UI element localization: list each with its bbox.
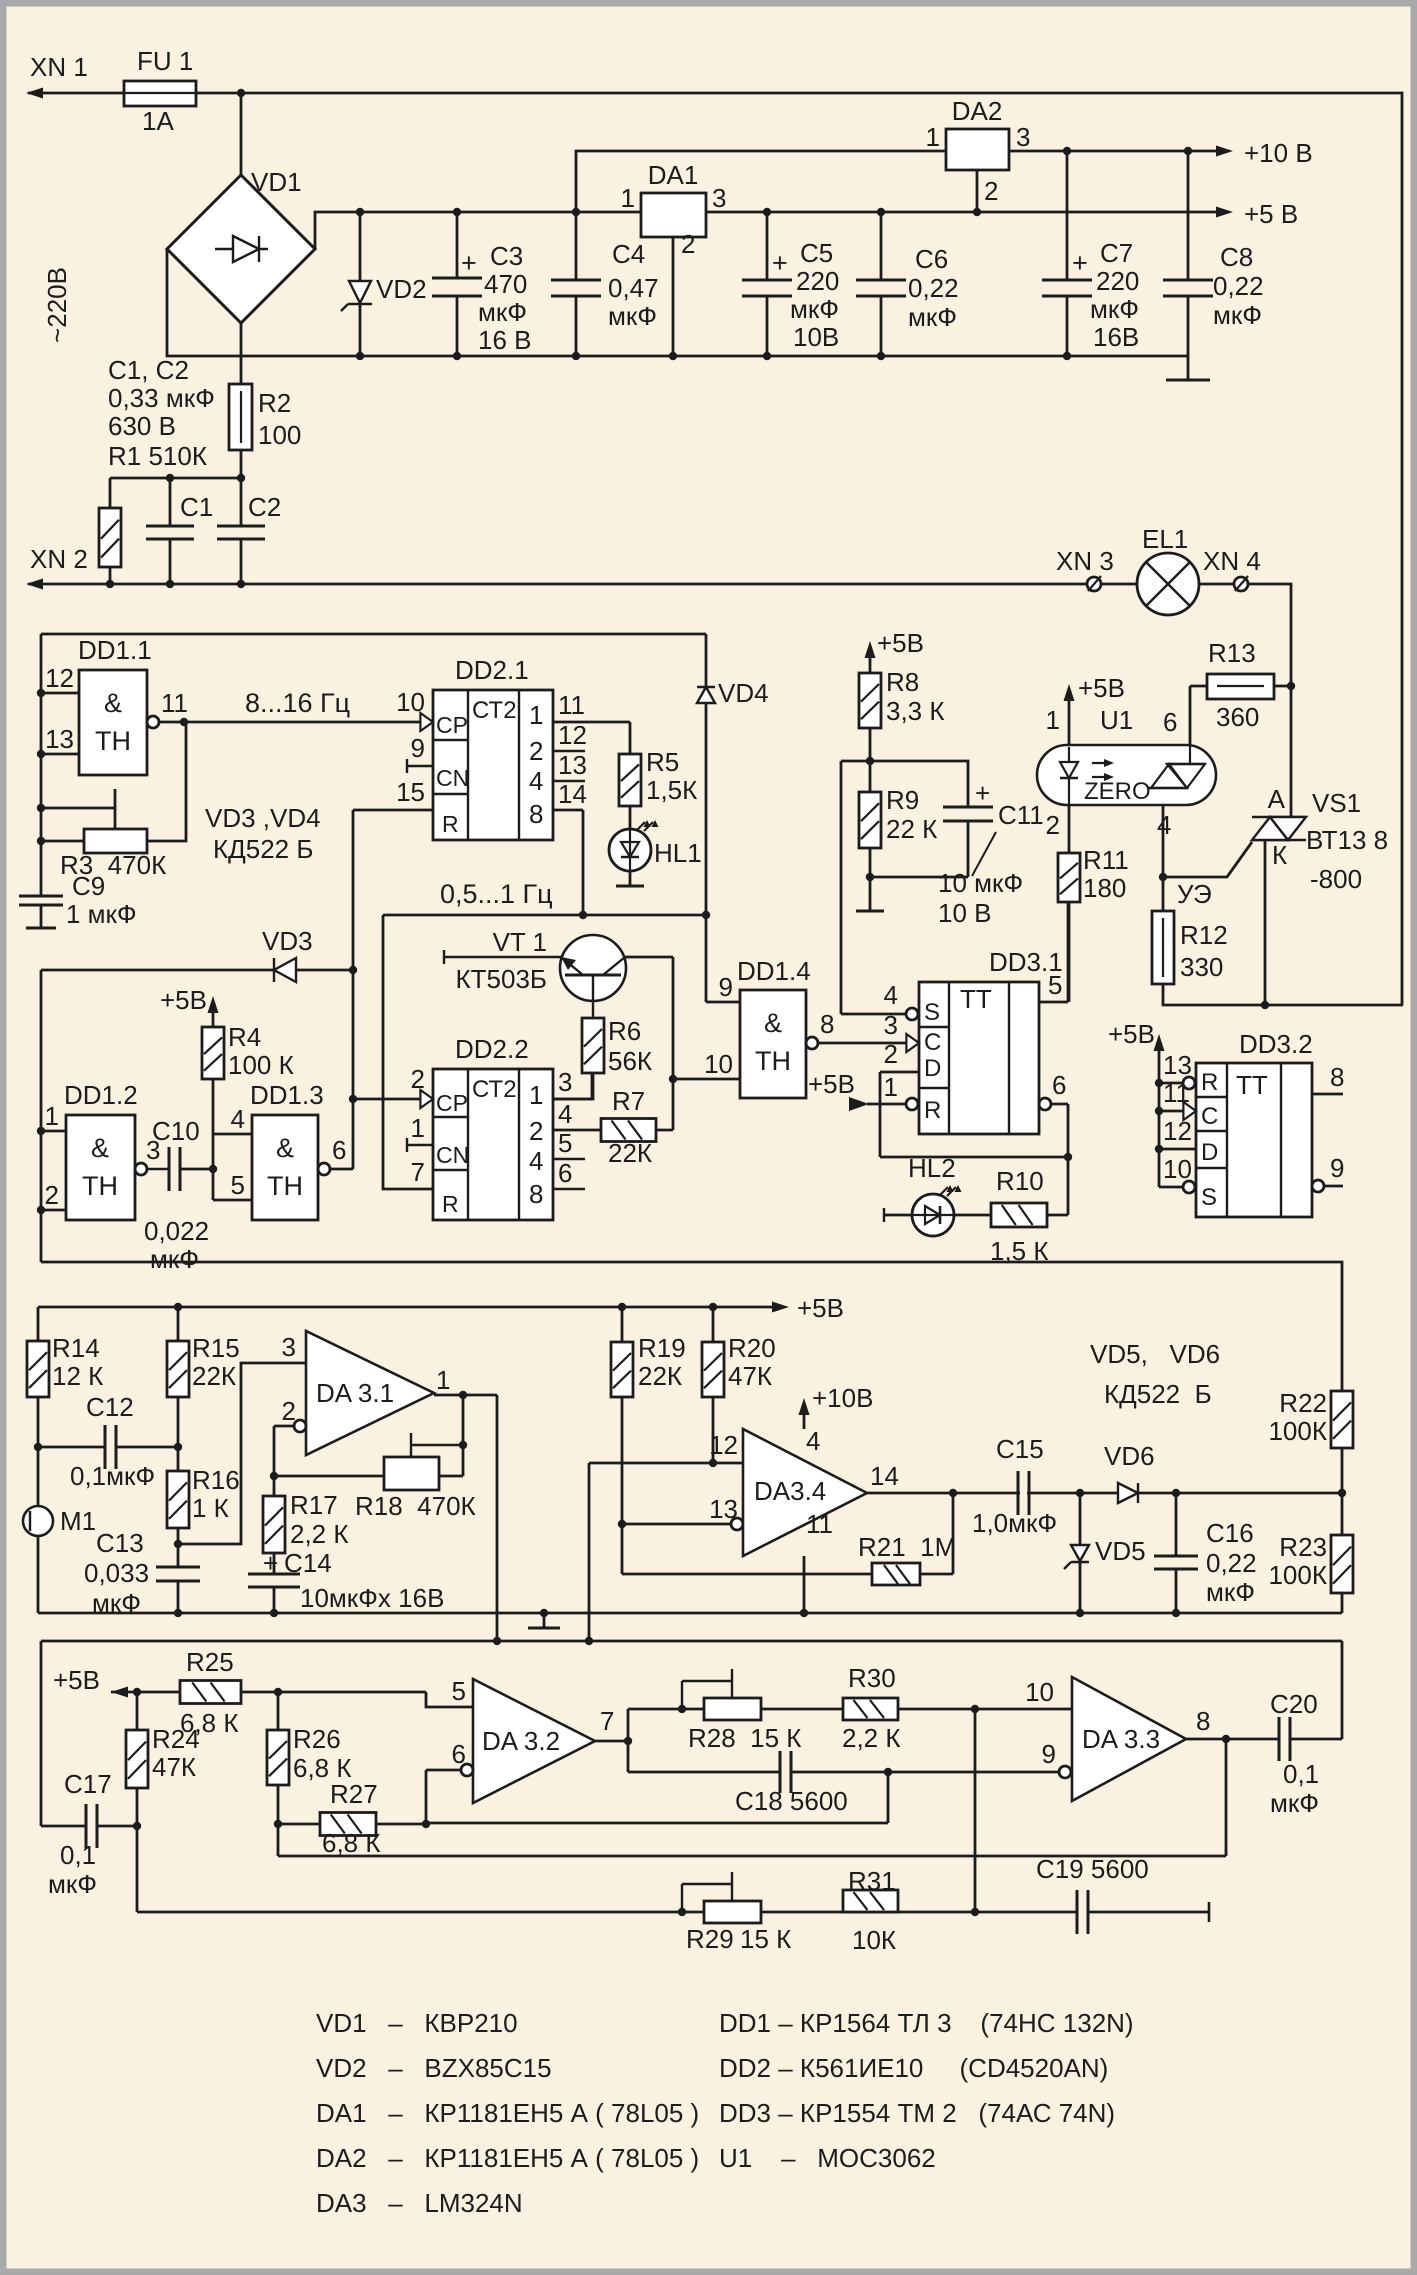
- svg-text:+: +: [461, 248, 477, 278]
- svg-text:+5В: +5В: [808, 1069, 855, 1099]
- svg-text:R: R: [442, 1191, 459, 1217]
- svg-text:2,2 К: 2,2 К: [842, 1723, 901, 1753]
- svg-text:1 К: 1 К: [192, 1493, 229, 1523]
- svg-text:С13: С13: [96, 1528, 144, 1558]
- svg-text:CN: CN: [436, 1142, 469, 1168]
- svg-text:СТ2: СТ2: [472, 1076, 517, 1103]
- svg-text:R12: R12: [1180, 920, 1228, 950]
- svg-text:ТН: ТН: [95, 726, 131, 756]
- svg-text:DD1.3: DD1.3: [250, 1080, 324, 1110]
- svg-text:VD6: VD6: [1104, 1441, 1155, 1471]
- svg-text:2: 2: [1046, 810, 1060, 840]
- svg-text:22 К: 22 К: [886, 814, 937, 844]
- svg-text:DD1.4: DD1.4: [737, 956, 811, 986]
- svg-text:+: +: [263, 1548, 278, 1578]
- svg-text:С12: С12: [86, 1392, 134, 1422]
- svg-text:10К: 10К: [852, 1925, 896, 1955]
- svg-text:С20: С20: [1270, 1689, 1318, 1719]
- svg-text:9: 9: [719, 972, 733, 1002]
- svg-text:22К: 22К: [192, 1361, 236, 1391]
- svg-text:R4: R4: [228, 1022, 261, 1052]
- svg-text:мкФ: мкФ: [1270, 1788, 1319, 1818]
- svg-text:R21 1М: R21 1М: [858, 1532, 956, 1562]
- svg-text:VD1: VD1: [251, 167, 302, 197]
- svg-text:1,0мкФ: 1,0мкФ: [972, 1508, 1057, 1538]
- svg-text:VD2: VD2: [376, 274, 427, 304]
- svg-text:6: 6: [332, 1135, 346, 1165]
- svg-text:DD3 – КР1554 ТМ 2 (74АС 74N): DD3 – КР1554 ТМ 2 (74АС 74N): [719, 2098, 1115, 2128]
- svg-text:С19 5600: С19 5600: [1036, 1854, 1149, 1884]
- svg-text:10: 10: [1025, 1677, 1054, 1707]
- svg-text:470: 470: [484, 269, 527, 299]
- svg-text:~220В: ~220В: [42, 267, 72, 343]
- svg-text:+5В: +5В: [1108, 1019, 1155, 1049]
- svg-text:+5В: +5В: [53, 1665, 100, 1695]
- svg-text:-800: -800: [1310, 864, 1362, 894]
- svg-text:EL1: EL1: [1142, 524, 1188, 554]
- svg-text:22К: 22К: [638, 1361, 682, 1391]
- svg-text:1,5К: 1,5К: [646, 775, 697, 805]
- svg-text:DD1.2: DD1.2: [64, 1080, 138, 1110]
- svg-text:СТ2: СТ2: [472, 697, 517, 724]
- svg-text:13: 13: [1163, 1050, 1192, 1080]
- svg-text:ТН: ТН: [755, 1046, 791, 1076]
- svg-text:8: 8: [1196, 1706, 1210, 1736]
- svg-text:7: 7: [600, 1706, 614, 1736]
- svg-text:5: 5: [452, 1676, 466, 1706]
- svg-text:DA3 – LM324N: DA3 – LM324N: [316, 2188, 523, 2218]
- svg-text:0,33 мкФ: 0,33 мкФ: [108, 383, 215, 413]
- svg-text:С14: С14: [284, 1548, 332, 1578]
- svg-text:12 К: 12 К: [52, 1361, 103, 1391]
- svg-text:С2: С2: [248, 492, 281, 522]
- svg-text:10мкФх 16В: 10мкФх 16В: [300, 1583, 444, 1613]
- svg-text:180: 180: [1083, 873, 1126, 903]
- svg-text:VT 1: VT 1: [493, 927, 547, 957]
- svg-text:11: 11: [806, 1509, 833, 1539]
- svg-text:мкФ: мкФ: [1206, 1577, 1255, 1607]
- svg-text:VD5, VD6: VD5, VD6: [1090, 1339, 1220, 1369]
- svg-text:мкФ: мкФ: [790, 294, 839, 324]
- svg-text:С3: С3: [490, 241, 523, 271]
- svg-text:FU 1: FU 1: [137, 46, 193, 76]
- svg-text:2: 2: [282, 1396, 296, 1426]
- svg-text:R2: R2: [258, 388, 291, 418]
- svg-text:С7: С7: [1100, 238, 1133, 268]
- svg-text:U1: U1: [1100, 705, 1133, 735]
- svg-text:1: 1: [411, 1113, 425, 1143]
- svg-text:С4: С4: [612, 239, 645, 269]
- svg-text:1А: 1А: [142, 106, 174, 136]
- svg-text:+5В: +5В: [877, 628, 924, 658]
- svg-text:DA2: DA2: [952, 96, 1003, 126]
- svg-text:R28 15 К: R28 15 К: [688, 1723, 801, 1753]
- svg-text:100К: 100К: [1268, 1560, 1327, 1590]
- svg-text:13: 13: [709, 1494, 738, 1524]
- svg-text:14: 14: [558, 779, 587, 809]
- svg-text:+10В: +10В: [812, 1383, 873, 1413]
- svg-text:R6: R6: [608, 1016, 641, 1046]
- svg-text:4: 4: [558, 1099, 572, 1129]
- svg-text:&: &: [104, 688, 122, 718]
- svg-text:1: 1: [529, 1080, 543, 1110]
- svg-text:4: 4: [884, 980, 898, 1010]
- svg-text:0,5...1 Гц: 0,5...1 Гц: [440, 879, 553, 909]
- svg-text:9: 9: [411, 733, 425, 763]
- svg-text:КД522 Б: КД522 Б: [213, 834, 313, 864]
- svg-text:&: &: [764, 1008, 782, 1038]
- svg-text:12: 12: [558, 720, 587, 750]
- svg-text:12: 12: [1163, 1116, 1192, 1146]
- svg-text:М1: М1: [60, 1506, 96, 1536]
- svg-text:С18 5600: С18 5600: [735, 1786, 848, 1816]
- svg-text:56К: 56К: [608, 1046, 652, 1076]
- svg-text:0,22: 0,22: [1213, 271, 1264, 301]
- svg-text:R5: R5: [646, 747, 679, 777]
- svg-text:ТТ: ТТ: [960, 984, 992, 1014]
- svg-text:1 мкФ: 1 мкФ: [66, 899, 137, 929]
- svg-text:R24: R24: [152, 1724, 200, 1754]
- svg-text:мкФ: мкФ: [908, 302, 957, 332]
- svg-text:10: 10: [1163, 1154, 1192, 1184]
- svg-text:DA3.4: DA3.4: [754, 1476, 826, 1506]
- svg-text:КД522 Б: КД522 Б: [1104, 1379, 1212, 1409]
- svg-text:R26: R26: [293, 1724, 341, 1754]
- svg-text:4: 4: [529, 766, 543, 796]
- svg-text:+: +: [1072, 248, 1088, 278]
- svg-text:мкФ: мкФ: [478, 297, 527, 327]
- svg-text:R: R: [924, 1097, 941, 1124]
- svg-text:R8: R8: [886, 667, 919, 697]
- svg-text:XN 1: XN 1: [30, 52, 88, 82]
- svg-text:С17: С17: [64, 1769, 112, 1799]
- svg-text:C: C: [924, 1029, 941, 1056]
- svg-text:8: 8: [820, 1009, 834, 1039]
- svg-text:А: А: [1268, 784, 1286, 814]
- svg-text:15 К: 15 К: [740, 1924, 791, 1954]
- svg-text:VD5: VD5: [1095, 1536, 1146, 1566]
- svg-text:11: 11: [161, 688, 188, 718]
- svg-text:DA 3.2: DA 3.2: [482, 1726, 560, 1756]
- svg-text:HL2: HL2: [908, 1153, 956, 1183]
- svg-text:1: 1: [884, 1072, 898, 1102]
- svg-text:DD3.2: DD3.2: [1239, 1029, 1313, 1059]
- svg-text:мкФ: мкФ: [150, 1244, 199, 1274]
- svg-text:D: D: [924, 1055, 941, 1082]
- svg-text:XN 4: XN 4: [1203, 546, 1261, 576]
- svg-text:1: 1: [529, 700, 543, 730]
- svg-text:R19: R19: [638, 1333, 686, 1363]
- svg-text:DA 3.1: DA 3.1: [316, 1378, 394, 1408]
- svg-text:2,2 К: 2,2 К: [290, 1519, 349, 1549]
- svg-text:S: S: [924, 999, 940, 1026]
- svg-text:С11: С11: [998, 800, 1044, 830]
- svg-text:100: 100: [258, 420, 301, 450]
- svg-text:R18 470К: R18 470К: [355, 1491, 476, 1521]
- svg-text:R16: R16: [192, 1465, 240, 1495]
- svg-text:0,22: 0,22: [908, 273, 959, 303]
- svg-text:R1 510К: R1 510К: [108, 441, 207, 471]
- svg-text:10 мкФ: 10 мкФ: [938, 868, 1023, 898]
- svg-text:12: 12: [45, 663, 74, 693]
- svg-text:47К: 47К: [152, 1752, 196, 1782]
- svg-text:ТТ: ТТ: [1236, 1070, 1268, 1100]
- svg-text:2: 2: [45, 1180, 59, 1210]
- svg-text:XN 3: XN 3: [1056, 546, 1114, 576]
- svg-text:360: 360: [1216, 702, 1259, 732]
- svg-text:DD2 – К561ИЕ10 (CD4520АN): DD2 – К561ИЕ10 (CD4520АN): [719, 2053, 1108, 2083]
- svg-text:S: S: [1201, 1184, 1217, 1211]
- svg-text:11: 11: [1163, 1078, 1190, 1108]
- svg-text:6,8 К: 6,8 К: [322, 1828, 381, 1858]
- svg-text:R14: R14: [52, 1333, 100, 1363]
- svg-text:1: 1: [436, 1365, 450, 1395]
- svg-text:10 В: 10 В: [938, 898, 992, 928]
- svg-text:СР: СР: [436, 712, 468, 738]
- svg-text:мкФ: мкФ: [1090, 294, 1139, 324]
- svg-text:6: 6: [1163, 707, 1177, 737]
- svg-text:+5В: +5В: [797, 1293, 844, 1323]
- svg-text:D: D: [1201, 1139, 1218, 1166]
- svg-text:VS1: VS1: [1312, 788, 1361, 818]
- svg-text:С16: С16: [1206, 1518, 1254, 1548]
- svg-text:HL1: HL1: [654, 838, 702, 868]
- svg-text:DA2 – КР1181ЕН5 А ( 78L05: DA2 – КР1181ЕН5 А ( 78L05 ): [316, 2143, 699, 2173]
- svg-text:3: 3: [884, 1010, 898, 1040]
- svg-text:+5В: +5В: [160, 985, 207, 1015]
- svg-text:4: 4: [806, 1426, 820, 1456]
- svg-text:VD2 – BZX85C15: VD2 – BZX85C15: [316, 2053, 552, 2083]
- svg-text:мкФ: мкФ: [608, 301, 657, 331]
- svg-text:3: 3: [282, 1332, 296, 1362]
- svg-text:0,1мкФ: 0,1мкФ: [70, 1461, 155, 1491]
- svg-text:ТН: ТН: [82, 1171, 118, 1201]
- svg-text:+: +: [772, 248, 788, 278]
- svg-text:0,022: 0,022: [144, 1216, 209, 1246]
- svg-text:5: 5: [558, 1128, 572, 1158]
- svg-text:14: 14: [870, 1461, 899, 1491]
- svg-text:R15: R15: [192, 1333, 240, 1363]
- svg-text:8: 8: [1330, 1062, 1344, 1092]
- svg-text:DA1 – КР1181ЕН5 А ( 78L05: DA1 – КР1181ЕН5 А ( 78L05 ): [316, 2098, 699, 2128]
- svg-text:VD3 ,VD4: VD3 ,VD4: [205, 803, 321, 833]
- svg-text:DD2.1: DD2.1: [455, 655, 529, 685]
- svg-text:R11: R11: [1083, 845, 1129, 875]
- svg-text:R31: R31: [848, 1866, 896, 1896]
- svg-text:УЭ: УЭ: [1177, 879, 1212, 909]
- svg-text:2: 2: [984, 176, 998, 206]
- svg-text:630 В: 630 В: [108, 411, 176, 441]
- svg-text:3: 3: [1016, 122, 1030, 152]
- svg-text:XN 2: XN 2: [30, 544, 88, 574]
- svg-text:R7: R7: [612, 1086, 645, 1116]
- svg-text:R17: R17: [290, 1490, 338, 1520]
- svg-text:2: 2: [529, 736, 543, 766]
- svg-text:47К: 47К: [728, 1361, 772, 1391]
- svg-text:16В: 16В: [1093, 322, 1139, 352]
- svg-text:+5 В: +5 В: [1244, 199, 1298, 229]
- svg-text:ZERO: ZERO: [1084, 778, 1151, 805]
- svg-text:1: 1: [45, 1101, 59, 1131]
- svg-text:+10 В: +10 В: [1244, 138, 1313, 168]
- svg-text:С10: С10: [152, 1116, 200, 1146]
- svg-text:мкФ: мкФ: [48, 1869, 97, 1899]
- svg-text:9: 9: [1042, 1739, 1056, 1769]
- svg-text:1: 1: [926, 122, 940, 152]
- svg-text:0,1: 0,1: [60, 1840, 96, 1870]
- svg-text:R22: R22: [1279, 1388, 1327, 1418]
- svg-text:VD3: VD3: [262, 926, 313, 956]
- svg-text:R29: R29: [686, 1924, 734, 1954]
- svg-text:3: 3: [712, 183, 726, 213]
- svg-text:R23: R23: [1279, 1532, 1327, 1562]
- svg-text:0,033: 0,033: [84, 1558, 149, 1588]
- svg-text:CN: CN: [436, 765, 469, 791]
- svg-text:R13: R13: [1208, 638, 1256, 668]
- svg-text:VD4: VD4: [718, 678, 769, 708]
- svg-text:8: 8: [529, 799, 543, 829]
- svg-text:1: 1: [621, 183, 635, 213]
- svg-text:С8: С8: [1220, 242, 1253, 272]
- svg-text:С1: С1: [180, 492, 213, 522]
- svg-text:10: 10: [396, 687, 425, 717]
- svg-text:С6: С6: [915, 244, 948, 274]
- svg-text:11: 11: [558, 690, 585, 720]
- svg-text:R20: R20: [728, 1333, 776, 1363]
- svg-text:15: 15: [396, 777, 425, 807]
- svg-text:R10: R10: [996, 1166, 1044, 1196]
- svg-text:2: 2: [529, 1116, 543, 1146]
- svg-text:100 К: 100 К: [228, 1050, 294, 1080]
- svg-text:330: 330: [1180, 952, 1223, 982]
- svg-text:0,1: 0,1: [1283, 1759, 1319, 1789]
- svg-text:DA 3.3: DA 3.3: [1082, 1724, 1160, 1754]
- svg-text:С9: С9: [72, 871, 105, 901]
- svg-text:4: 4: [231, 1104, 245, 1134]
- svg-text:R30: R30: [848, 1663, 896, 1693]
- svg-text:3,3 К: 3,3 К: [886, 696, 945, 726]
- svg-text:0,47: 0,47: [608, 273, 659, 303]
- svg-text:10В: 10В: [793, 322, 839, 352]
- svg-text:DA1: DA1: [648, 160, 699, 190]
- svg-text:2: 2: [884, 1039, 898, 1069]
- svg-text:R: R: [1201, 1069, 1218, 1096]
- svg-text:5: 5: [1048, 970, 1062, 1000]
- svg-text:DD1.1: DD1.1: [78, 635, 152, 665]
- svg-text:R: R: [442, 811, 459, 837]
- svg-text:2: 2: [411, 1064, 425, 1094]
- svg-text:ТН: ТН: [267, 1171, 303, 1201]
- svg-text:С5: С5: [800, 238, 833, 268]
- svg-text:R27: R27: [330, 1779, 378, 1809]
- svg-text:7: 7: [411, 1157, 425, 1187]
- svg-text:6: 6: [558, 1158, 572, 1188]
- svg-text:13: 13: [558, 750, 587, 780]
- svg-text:КТ503Б: КТ503Б: [456, 964, 547, 994]
- svg-text:100К: 100К: [1268, 1416, 1327, 1446]
- svg-text:13: 13: [45, 724, 74, 754]
- svg-text:R9: R9: [886, 785, 919, 815]
- svg-text:2: 2: [681, 229, 695, 259]
- svg-text:8: 8: [529, 1179, 543, 1209]
- svg-text:12: 12: [709, 1430, 738, 1460]
- svg-text:+5В: +5В: [1078, 673, 1125, 703]
- svg-text:22К: 22К: [608, 1138, 652, 1168]
- svg-text:5: 5: [231, 1170, 245, 1200]
- svg-text:1: 1: [1046, 705, 1060, 735]
- svg-text:220: 220: [796, 266, 839, 296]
- svg-text:С15: С15: [996, 1434, 1044, 1464]
- svg-text:8...16 Гц: 8...16 Гц: [245, 688, 350, 718]
- svg-text:C1, C2: C1, C2: [108, 355, 189, 385]
- svg-text:мкФ: мкФ: [1213, 300, 1262, 330]
- svg-text:К: К: [1272, 840, 1287, 870]
- svg-text:6: 6: [1052, 1070, 1066, 1100]
- svg-text:9: 9: [1330, 1153, 1344, 1183]
- svg-text:U1 – МОС3062: U1 – МОС3062: [719, 2143, 936, 2173]
- svg-text:220: 220: [1096, 266, 1139, 296]
- svg-text:10: 10: [704, 1049, 733, 1079]
- svg-text:&: &: [91, 1133, 109, 1163]
- svg-text:16 В: 16 В: [478, 325, 532, 355]
- svg-text:VD1 – КВР210: VD1 – КВР210: [316, 2008, 518, 2038]
- svg-text:C: C: [1201, 1103, 1218, 1130]
- svg-text:0,22: 0,22: [1206, 1548, 1257, 1578]
- svg-text:&: &: [276, 1133, 294, 1163]
- svg-text:+: +: [975, 778, 990, 808]
- svg-text:СР: СР: [436, 1090, 468, 1116]
- svg-text:ВТ13 8: ВТ13 8: [1306, 825, 1388, 855]
- svg-text:DD2.2: DD2.2: [455, 1034, 529, 1064]
- svg-text:4: 4: [529, 1146, 543, 1176]
- svg-text:3: 3: [558, 1067, 572, 1097]
- svg-text:R25: R25: [186, 1647, 234, 1677]
- svg-text:DD1 – КР1564 ТЛ 3 (74НС 132: DD1 – КР1564 ТЛ 3 (74НС 132N): [719, 2008, 1134, 2038]
